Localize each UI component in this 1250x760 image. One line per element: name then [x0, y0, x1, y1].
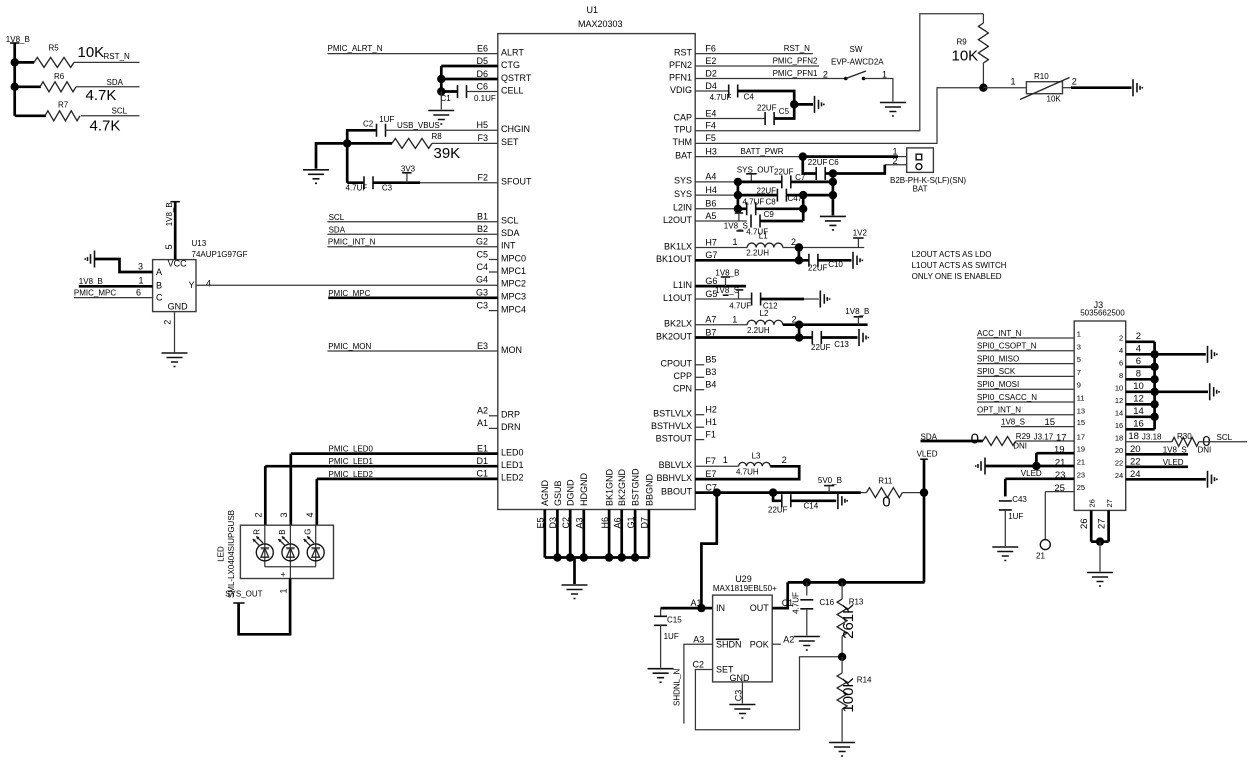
svg-text:11: 11 [1077, 394, 1085, 403]
svg-text:1: 1 [723, 455, 728, 465]
pin A1 DRN U1 [477, 418, 521, 432]
pin B5 CPOUT U1 [661, 355, 717, 369]
wire U1 ground bus [545, 558, 649, 585]
power flag 1V8_S at L1OUT [715, 286, 743, 299]
node C6 gnd-col junction [829, 169, 837, 177]
svg-text:1: 1 [732, 315, 737, 325]
wire to U29 IN [701, 607, 712, 610]
pin D7 BBGND U1 [640, 473, 655, 557]
svg-text:J3.17: J3.17 [1034, 432, 1054, 441]
svg-text:1V8_S: 1V8_S [715, 286, 739, 295]
net SPI0_MISO J3 pin5 [977, 354, 1074, 363]
svg-text:25: 25 [1077, 483, 1085, 492]
svg-text:23: 23 [1055, 470, 1066, 481]
svg-text:A5: A5 [705, 211, 716, 221]
power flag 5V0_B [818, 476, 842, 493]
pin E6 ALRT U1 [477, 43, 524, 57]
svg-text:1UF: 1UF [1008, 512, 1023, 521]
pin A5 L2OUT U1 [663, 211, 716, 225]
svg-text:BK1LX: BK1LX [664, 241, 692, 251]
svg-text:20: 20 [1130, 444, 1141, 455]
svg-text:R6: R6 [54, 72, 65, 81]
svg-text:1V2: 1V2 [853, 228, 868, 237]
pin 1 J3 [1077, 330, 1081, 339]
pin 6 J3 [1119, 358, 1123, 367]
pin B1 SCL U1 [477, 212, 519, 226]
node R9/R10 junction [979, 84, 987, 92]
wire R10 to ground [1063, 87, 1132, 89]
svg-text:0.1UF: 0.1UF [474, 94, 496, 103]
svg-text:A4: A4 [705, 172, 716, 182]
power flag SYS_OUT at SYS [737, 166, 774, 182]
wire J3 pin16 [1126, 419, 1155, 430]
net RST_N [695, 44, 813, 53]
svg-text:E7: E7 [705, 469, 716, 479]
svg-text:C14: C14 [804, 502, 819, 511]
resistor R8 39K [347, 132, 498, 162]
svg-text:BK1GND: BK1GND [605, 468, 615, 506]
wire junction to R10 [983, 87, 1026, 89]
pin 25 J3 [1077, 483, 1085, 492]
capacitor C9 4.7UF [746, 210, 803, 236]
svg-text:SPI0_MISO: SPI0_MISO [977, 354, 1019, 363]
node gnd bus junction [605, 553, 613, 561]
svg-text:SDA: SDA [501, 228, 520, 238]
switch SW EVP-AWCD2A [831, 45, 887, 80]
node CELL junction [437, 87, 445, 95]
svg-text:22UF: 22UF [808, 264, 828, 273]
pin E1 LED0 U1 [477, 443, 524, 457]
wire L2 to 1V8_B [783, 323, 868, 326]
pin D4 VDIG U1 [670, 81, 717, 95]
wire J3 pin4 [1126, 344, 1155, 355]
wire L1 to 1V2 [783, 247, 864, 249]
svg-text:R29: R29 [1016, 432, 1031, 441]
node bracket pin10 [1150, 388, 1158, 396]
svg-text:2.2UH: 2.2UH [747, 326, 770, 335]
capacitor C3 4.7UF [346, 176, 498, 192]
svg-text:BBLVLX: BBLVLX [659, 460, 692, 470]
power flag VLED [917, 449, 938, 492]
wire caps ground column [802, 195, 805, 221]
svg-text:22UF: 22UF [808, 158, 828, 167]
svg-text:1V8_S: 1V8_S [1163, 445, 1187, 454]
svg-text:PFN1: PFN1 [669, 72, 692, 82]
svg-text:R8: R8 [432, 132, 443, 141]
pin 22 J3 [1115, 458, 1123, 467]
svg-text:C16: C16 [819, 598, 834, 607]
wire 1V8_B column [13, 62, 16, 115]
svg-text:74AUP1G97GF: 74AUP1G97GF [192, 250, 248, 259]
node BK2OUT junction [795, 333, 803, 341]
LED D-B blue [278, 525, 299, 567]
svg-text:DGND: DGND [566, 479, 576, 506]
svg-text:BBGND: BBGND [644, 473, 654, 506]
wire CTG [441, 66, 498, 92]
net USB_VBUS CHGIN [386, 121, 498, 130]
ground under C43 [992, 547, 1018, 561]
svg-text:LED0: LED0 [501, 447, 524, 457]
LED D-R red [253, 525, 274, 567]
pin H5 CHGIN U1 [476, 120, 530, 134]
svg-text:U13: U13 [192, 239, 207, 248]
ground U1 bus [562, 585, 588, 599]
svg-text:4.7UF: 4.7UF [729, 301, 751, 310]
svg-text:H4: H4 [705, 185, 717, 195]
node C2 junction [343, 139, 351, 147]
wire L2OUT A5 [695, 220, 747, 222]
svg-text:24: 24 [1130, 469, 1141, 480]
svg-text:7: 7 [1077, 368, 1081, 377]
capacitor C2 1UF [347, 115, 394, 143]
svg-text:21: 21 [1055, 457, 1066, 468]
pin C1 U29 [782, 598, 794, 608]
svg-text:J3.18: J3.18 [1142, 432, 1162, 441]
svg-text:USB_VBUS: USB_VBUS [397, 121, 440, 130]
svg-text:SCL: SCL [501, 216, 519, 226]
svg-text:4.7UF: 4.7UF [346, 184, 368, 193]
op-amp U13 74AUP1G97GF [153, 239, 248, 311]
power flag 1V2 [853, 228, 868, 247]
wire TPU to R9 [695, 14, 983, 131]
svg-text:ONLY ONE IS ENABLED: ONLY ONE IS ENABLED [912, 272, 1002, 281]
svg-text:MPC2: MPC2 [501, 279, 526, 289]
wire L1IN [695, 285, 746, 288]
svg-text:A1: A1 [477, 418, 488, 428]
svg-text:L3: L3 [752, 451, 761, 460]
capacitor C12 4.7UF [729, 293, 819, 311]
ground under C15 [648, 669, 674, 683]
svg-text:B6: B6 [705, 199, 716, 209]
svg-text:C6: C6 [476, 81, 488, 91]
pin D6 QSTRT U1 [476, 69, 531, 83]
svg-text:E1: E1 [477, 443, 488, 453]
ground under R14 [829, 743, 855, 757]
svg-text:R10: R10 [1034, 72, 1049, 81]
svg-text:B7: B7 [705, 327, 716, 337]
net PMIC_MON [328, 342, 498, 351]
node bracket pin6 [1150, 363, 1158, 371]
svg-text:4.7UH: 4.7UH [736, 467, 759, 476]
node bracket pin8 [1150, 375, 1158, 383]
svg-text:100K: 100K [840, 678, 857, 713]
pin C3 U29 [734, 690, 744, 702]
svg-text:SW: SW [850, 45, 863, 54]
svg-text:22UF: 22UF [757, 186, 777, 195]
capacitor C6 22UF [803, 157, 839, 180]
pin A1 U29 [691, 598, 702, 608]
pin E5 AGND U1 [536, 479, 551, 557]
svg-text:1V8_S: 1V8_S [1001, 417, 1025, 426]
capacitor C8 4.7UF [738, 198, 803, 216]
node gnd bus junction [618, 553, 626, 561]
resistor R6 [15, 72, 117, 104]
pin 4 LED [305, 512, 315, 517]
net PMIC_LED0 [291, 445, 498, 526]
svg-text:C43: C43 [1012, 495, 1027, 504]
svg-text:18: 18 [1115, 433, 1123, 442]
svg-text:BAT: BAT [675, 150, 692, 160]
svg-text:5V0_B: 5V0_B [818, 476, 842, 485]
svg-text:1: 1 [1011, 77, 1016, 87]
ground U29 [729, 705, 755, 719]
svg-text:261K: 261K [840, 604, 857, 639]
pin H7 BK1LX U1 [664, 237, 717, 251]
svg-text:SPI0_CSOPT_N: SPI0_CSOPT_N [977, 342, 1037, 351]
wire LED cathode bus [265, 567, 316, 579]
pin B3 CPP U1 [673, 367, 716, 381]
pin E3 MON U1 [477, 341, 522, 355]
svg-text:GND: GND [168, 301, 189, 311]
ground left at J3 pin21 [976, 458, 985, 475]
node C7 gnd-col junction [829, 178, 837, 186]
svg-text:0: 0 [882, 493, 890, 510]
svg-text:D6: D6 [476, 69, 488, 79]
net 1V8_B at U13 B [79, 277, 153, 286]
svg-text:OUT: OUT [750, 603, 770, 613]
svg-text:RST: RST [674, 47, 693, 57]
net SPI0_SCK J3 pin7 [977, 367, 1074, 376]
svg-text:21: 21 [1036, 552, 1045, 561]
pin F6 RST U1 [674, 43, 716, 57]
net PMIC_INT_N [328, 238, 498, 247]
svg-text:SDA: SDA [329, 225, 346, 234]
node bracket pin12 [1150, 400, 1158, 408]
net SCL [328, 213, 498, 222]
thermistor R10 10K [1011, 72, 1077, 103]
pin B2 SDA U1 [477, 224, 520, 238]
svg-text:OPT_INT_N: OPT_INT_N [977, 406, 1021, 415]
ground under SW [880, 103, 906, 117]
pin 1 U13 [139, 276, 144, 286]
node BAT junction [799, 152, 807, 160]
svg-text:4: 4 [305, 512, 315, 517]
svg-text:6: 6 [136, 288, 141, 298]
svg-text:IN: IN [716, 603, 725, 613]
svg-text:PMIC_MON: PMIC_MON [328, 342, 371, 351]
svg-text:PMIC_PFN1: PMIC_PFN1 [773, 69, 818, 78]
pin F2 SFOUT U1 [477, 173, 532, 187]
svg-text:22UF: 22UF [768, 505, 788, 514]
node gnd bus junction [566, 553, 574, 561]
svg-text:A2: A2 [783, 634, 794, 644]
svg-text:SPI0_SCK: SPI0_SCK [977, 367, 1016, 376]
svg-text:14: 14 [1133, 406, 1144, 417]
svg-text:9: 9 [1077, 381, 1081, 390]
inductor L3 4.7UH [736, 451, 787, 476]
svg-text:C8: C8 [766, 198, 777, 207]
svg-text:14: 14 [1115, 408, 1123, 417]
svg-text:C1: C1 [441, 94, 452, 103]
wire J3 right bracket [1153, 342, 1156, 430]
svg-text:B5: B5 [705, 355, 716, 365]
ground right of R10 [1133, 79, 1142, 96]
svg-text:F3: F3 [477, 133, 488, 143]
node C4/C5 junction [790, 100, 798, 108]
svg-text:20: 20 [1115, 446, 1123, 455]
svg-text:2: 2 [163, 320, 173, 325]
node L2IN junction [734, 205, 742, 213]
svg-text:R11: R11 [878, 476, 893, 485]
svg-text:A: A [156, 267, 162, 277]
svg-text:PMIC_INT_N: PMIC_INT_N [328, 238, 376, 247]
wire SYS column [737, 182, 740, 209]
net 1V8_S J3 pin15 [1001, 417, 1074, 428]
svg-text:21: 21 [1077, 458, 1085, 467]
svg-text:CHGIN: CHGIN [501, 124, 530, 134]
svg-text:E6: E6 [477, 43, 488, 53]
svg-text:17: 17 [1077, 433, 1085, 442]
svg-text:R7: R7 [58, 101, 69, 110]
svg-text:39K: 39K [434, 145, 461, 162]
pin 6 U13 [136, 288, 141, 298]
node R11/VLED junction [920, 488, 928, 496]
resistor R9 10K [952, 14, 989, 88]
wire U13 A input [95, 259, 153, 272]
svg-text:3: 3 [138, 262, 143, 272]
node C47 col junction [799, 191, 807, 199]
svg-text:F2: F2 [477, 173, 488, 183]
pin C2 DGND U1 [561, 479, 576, 557]
pin 14 J3 [1115, 408, 1123, 417]
svg-text:MPC4: MPC4 [501, 304, 526, 314]
svg-text:E3: E3 [477, 341, 488, 351]
svg-text:POK: POK [750, 639, 769, 649]
svg-text:C: C [156, 293, 163, 303]
svg-text:18: 18 [1128, 431, 1139, 442]
svg-text:1: 1 [1077, 330, 1081, 339]
svg-text:MAX20303: MAX20303 [578, 19, 623, 29]
svg-text:CELL: CELL [501, 85, 524, 95]
svg-text:C15: C15 [667, 615, 682, 624]
svg-text:10K: 10K [78, 44, 105, 61]
svg-text:ACC_INT_N: ACC_INT_N [977, 329, 1022, 338]
wire J3 pin21 [985, 457, 1074, 468]
wire BK1LX [695, 237, 747, 248]
svg-text:CAP: CAP [673, 112, 692, 122]
pin 3 U13 [138, 262, 143, 272]
svg-text:A7: A7 [705, 315, 716, 325]
svg-text:B: B [156, 281, 162, 291]
power flag 1V8_B at BK2 [845, 307, 869, 325]
svg-text:H1: H1 [705, 417, 717, 427]
wire U29 OUT [772, 582, 788, 608]
connector J-BAT B2B-PH-K-S [890, 148, 966, 194]
svg-text:C2: C2 [363, 119, 374, 128]
wire L1 to BK1OUT [798, 248, 801, 261]
svg-text:MON: MON [501, 345, 522, 355]
svg-text:VLED: VLED [917, 449, 938, 458]
pin 1 LED plus [279, 570, 289, 594]
pin F5 THM U1 [673, 133, 716, 147]
node CTG/QSTRT junction [437, 75, 445, 83]
svg-text:5035662500: 5035662500 [1080, 309, 1125, 318]
pin 2 LED [253, 512, 263, 517]
svg-text:0: 0 [971, 431, 979, 448]
net PMIC_LED2 [317, 470, 498, 525]
svg-text:22: 22 [1130, 456, 1141, 467]
svg-text:5: 5 [164, 244, 174, 249]
svg-text:SPI0_CSACC_N: SPI0_CSACC_N [977, 393, 1037, 402]
svg-text:C1: C1 [476, 469, 488, 479]
wire J3 pin14 [1126, 406, 1155, 417]
pin A7 BK2LX U1 [664, 315, 716, 329]
pin 15 J3 [1077, 418, 1085, 427]
svg-text:BSTLVLX: BSTLVLX [653, 409, 692, 419]
ground right of C14 [838, 492, 847, 509]
svg-text:G4: G4 [476, 275, 488, 285]
wire C2 junction down to C3 [346, 143, 349, 182]
pin C2 U29 [693, 660, 705, 670]
wire SW to ground [864, 79, 893, 102]
svg-text:SDA: SDA [107, 78, 124, 87]
wire QSTRT [441, 78, 498, 81]
svg-text:1V8_B: 1V8_B [79, 277, 103, 286]
wire BK2LX [695, 315, 747, 325]
wire junction to left ground [316, 143, 347, 168]
op-amp U29 MAX1819EBL50+ [713, 574, 777, 683]
pin H3 BAT U1 [675, 146, 717, 160]
pin 5 J3 [1077, 355, 1081, 364]
svg-text:22: 22 [1115, 458, 1123, 467]
wire U29 SET feedback [695, 657, 842, 730]
capacitor C1 0.1UF [441, 85, 498, 103]
wire to J3 ground [1099, 542, 1101, 572]
power flag 1V8_B at L1IN [715, 269, 739, 287]
ground left of C2 [303, 170, 329, 184]
node R13/R14 junction [838, 653, 846, 661]
svg-text:DRN: DRN [501, 422, 521, 432]
svg-text:AGND: AGND [540, 479, 550, 506]
pin G6 L1IN U1 [673, 276, 717, 290]
svg-text:19: 19 [1054, 445, 1065, 456]
ground under C1 [428, 111, 454, 125]
svg-text:2.2UH: 2.2UH [746, 248, 769, 257]
svg-text:VDIG: VDIG [670, 85, 692, 95]
wire pin10 to ground [1155, 390, 1208, 393]
node C16 junction [803, 578, 811, 586]
svg-text:QSTRT: QSTRT [501, 73, 532, 83]
svg-text:ALRT: ALRT [501, 47, 524, 57]
svg-text:PFN2: PFN2 [669, 60, 692, 70]
svg-text:H5: H5 [476, 120, 488, 130]
pin 3 J3 [1077, 342, 1081, 351]
svg-text:C10: C10 [828, 260, 843, 269]
svg-text:4.7K: 4.7K [90, 118, 121, 135]
svg-text:B3: B3 [705, 367, 716, 377]
wire U13 Y output PMIC_MPC [196, 284, 498, 286]
svg-text:4.7UF: 4.7UF [791, 592, 800, 614]
ground under J3 [1087, 573, 1113, 587]
wire J3 pin6 [1126, 356, 1155, 367]
wire J3 pin19 [1036, 445, 1074, 467]
capacitor C4 4.7UF [695, 85, 794, 105]
svg-text:8: 8 [1119, 371, 1123, 380]
wire L2IN B6 [695, 208, 738, 210]
resistor R5 [15, 44, 105, 68]
wire OUT bus to VLED [788, 581, 925, 584]
svg-text:GSUB: GSUB [553, 480, 563, 506]
pin B7 BK2OUT U1 [656, 327, 716, 341]
pin 13 J3 [1077, 406, 1085, 415]
pin D1 LED1 U1 [476, 456, 523, 470]
wire U13 GND [174, 312, 176, 353]
svg-text:THM: THM [673, 137, 693, 147]
ground U13 [162, 353, 188, 367]
svg-text:22UF: 22UF [774, 168, 794, 177]
svg-text:5: 5 [1077, 355, 1081, 364]
power flag SYS_OUT [225, 590, 262, 603]
